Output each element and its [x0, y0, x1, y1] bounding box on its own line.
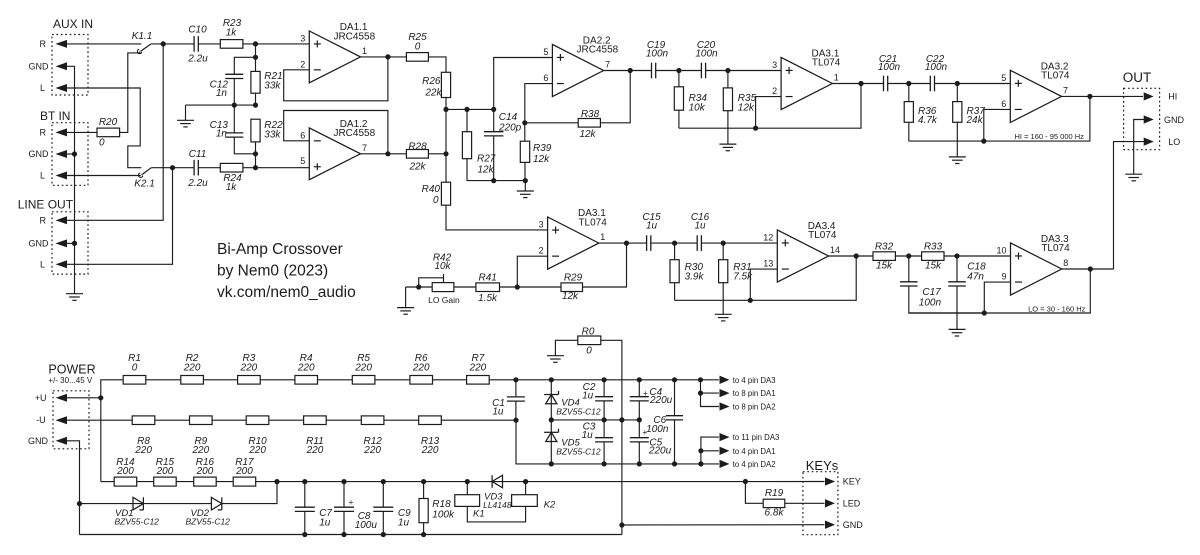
note to 4 pin DA1: [733, 447, 776, 456]
label K1: [473, 509, 485, 520]
label C22: [926, 54, 945, 65]
label C18: [967, 262, 986, 273]
wire R5 to R6: [375, 379, 410, 381]
wire R25 to R26: [428, 57, 446, 72]
resistor R19: [763, 499, 785, 507]
op-amp U DA1.2: [300, 119, 375, 180]
junction C3 bottom: [602, 461, 607, 466]
wire R38 left: [525, 122, 578, 124]
wire R38 to output: [600, 71, 630, 123]
ground (R37): [949, 157, 966, 164]
note LO band: [1028, 305, 1086, 314]
capacitor C17: [900, 282, 918, 286]
arrow KEY: [826, 478, 834, 485]
junction C12 tap: [253, 55, 258, 60]
svg-text:1: 1: [362, 46, 367, 56]
label R6: [415, 353, 428, 364]
svg-text:220u: 220u: [649, 395, 673, 406]
junction C4/C5 mid: [637, 417, 642, 422]
zener diode VD5: [544, 429, 558, 442]
value R27 12k: [478, 164, 495, 175]
junction C1 bottom / -U drop: [513, 418, 518, 423]
svg-text:6: 6: [1001, 99, 1006, 109]
junction R0 mid: [619, 417, 624, 422]
note to 4 pin DA2: [733, 460, 776, 469]
wire LINE OUT L from K2.1 common: [67, 168, 173, 265]
junction C21/C22 node: [906, 81, 911, 86]
value R33 15k: [925, 261, 942, 272]
junction node B (R24 out): [253, 165, 258, 170]
svg-text:L: L: [40, 83, 45, 93]
wire DA1.1 output: [361, 56, 407, 58]
wire C5 bottom: [638, 442, 640, 464]
svg-text:to 8 pin DA1: to 8 pin DA1: [733, 389, 776, 398]
resistor R40: [441, 182, 450, 205]
label R7: [472, 353, 485, 364]
resistor R37: [953, 102, 962, 123]
label R36: [918, 106, 937, 117]
wire R42 to R41: [454, 286, 476, 288]
label R3: [243, 353, 256, 364]
junction DA1.1 out: [385, 54, 390, 59]
capacitor C19: [652, 63, 656, 79]
svg-text:9: 9: [1001, 271, 1006, 281]
resistor R9: [190, 416, 213, 425]
label VD2: [191, 508, 210, 519]
svg-text:LED: LED: [843, 499, 861, 509]
wire R2 to R3: [203, 379, 237, 381]
junction C8 bottom: [341, 532, 346, 537]
wire C2 column: [603, 380, 605, 397]
pin label R (BT): [40, 127, 47, 137]
resistor R20: [97, 128, 120, 137]
junction C14 bottom: [491, 178, 496, 183]
wire R0 right / GND column: [601, 340, 622, 534]
capacitor C7: [295, 507, 315, 511]
svg-text:1.5k: 1.5k: [478, 293, 498, 304]
junction GND column / keys gnd: [619, 522, 624, 527]
polarity + (C4): [643, 388, 648, 398]
svg-text:HI = 160 - 95 000 Hz: HI = 160 - 95 000 Hz: [1015, 132, 1085, 141]
svg-text:12: 12: [763, 232, 773, 242]
resistor R32: [873, 252, 895, 261]
svg-text:BZV55-C12: BZV55-C12: [115, 517, 160, 527]
note HI band: [1015, 132, 1085, 141]
svg-text:200: 200: [116, 466, 134, 477]
svg-text:22k: 22k: [408, 162, 426, 173]
svg-text:47n: 47n: [967, 272, 984, 283]
junction -U arrows tap: [698, 461, 703, 466]
svg-text:200: 200: [196, 466, 214, 477]
wire C3 bottom: [603, 442, 605, 464]
wire arrow DA1: [701, 392, 719, 394]
svg-text:-U: -U: [36, 415, 46, 425]
arrow KEYs GND: [826, 521, 834, 528]
resistor R39: [520, 141, 529, 162]
arrow LINE OUT GND: [57, 240, 67, 247]
wire C1 top stub: [515, 380, 517, 397]
wire R24 to pin5 DA1.2: [243, 167, 309, 169]
svg-text:220u: 220u: [648, 446, 672, 457]
value C11 2.2u: [187, 178, 208, 189]
arrow BT L: [57, 172, 67, 179]
pin label GND (POWER): [28, 436, 49, 446]
wire R14 to R15: [137, 481, 154, 483]
note LO Gain: [428, 295, 460, 305]
wire BT GND: [67, 153, 75, 155]
wire to pin5 DA2.2: [494, 58, 553, 110]
resistor R41: [476, 283, 500, 292]
value R18 100k: [432, 509, 455, 520]
label R9: [194, 436, 207, 447]
svg-text:K1: K1: [473, 509, 485, 520]
svg-text:7: 7: [362, 143, 367, 153]
svg-text:10k: 10k: [434, 261, 451, 272]
value R7 220: [469, 362, 487, 373]
arrow AUX L: [57, 85, 67, 92]
value VD4 BZV55-C12: [556, 407, 601, 417]
wire R23 to pin3 DA1.1: [243, 43, 309, 45]
capacitor C11: [194, 160, 198, 176]
wire K2.1 common: [151, 167, 194, 169]
svg-text:220: 220: [134, 445, 152, 456]
value R9 220: [192, 445, 210, 456]
pin label L (BT): [40, 171, 45, 181]
svg-text:3: 3: [539, 219, 544, 229]
pin label GND (KEYs): [843, 520, 864, 530]
wire DA3.3 feedback: [984, 282, 1010, 313]
junction C13 top: [232, 103, 237, 108]
svg-text:5: 5: [543, 47, 548, 57]
svg-text:100n: 100n: [646, 49, 669, 60]
label R1: [128, 353, 141, 364]
svg-text:14: 14: [830, 245, 840, 255]
arrow LINE OUT L: [57, 261, 67, 268]
svg-text:BT IN: BT IN: [40, 109, 70, 123]
wire R10 to R11: [269, 419, 304, 421]
svg-text:+U: +U: [35, 393, 47, 403]
pin label R (LINE OUT): [40, 215, 47, 225]
svg-text:33k: 33k: [264, 81, 281, 92]
svg-text:5: 5: [1001, 73, 1006, 83]
value R3 220: [240, 362, 258, 373]
wire relay rail: [256, 481, 503, 483]
svg-text:15k: 15k: [925, 261, 942, 272]
svg-text:GND: GND: [843, 520, 864, 530]
arrow OUT GND: [1144, 116, 1152, 123]
value R10 220: [248, 445, 266, 456]
title line 2: [217, 263, 328, 280]
svg-text:2: 2: [539, 246, 544, 256]
pin label GND (BT): [29, 149, 50, 159]
svg-text:2: 2: [300, 59, 305, 69]
polarity + (C5): [642, 427, 647, 437]
value R0 0: [586, 346, 592, 357]
value C13 1n: [216, 129, 228, 140]
svg-text:to 4 pin DA1: to 4 pin DA1: [733, 447, 776, 456]
junction VD5 bottom: [549, 461, 554, 466]
wire C13 top: [233, 105, 235, 133]
arrow to 4 pin DA3: [720, 376, 728, 383]
relay contact K1.1: [137, 44, 151, 54]
arrow LINE OUT R: [57, 217, 67, 224]
junction R33/C18 node: [954, 253, 959, 258]
svg-text:6: 6: [300, 130, 305, 140]
wire DA1.1 feedback: [284, 57, 388, 101]
resistor R38: [578, 119, 600, 128]
capacitor C4 (electrolytic): [630, 397, 649, 401]
wire R6 to R7: [433, 379, 467, 381]
junction pin6 feedback: [981, 139, 986, 144]
svg-text:220: 220: [183, 362, 201, 373]
svg-text:0: 0: [586, 346, 592, 357]
svg-text:0: 0: [132, 362, 138, 373]
wire K2 top stub: [525, 482, 527, 495]
wire R14 row lead-in: [101, 481, 114, 483]
pin label -U: [36, 415, 46, 425]
label C2: [583, 382, 596, 393]
note to 8 pin DA1: [733, 389, 776, 398]
connector KEYs: [803, 472, 838, 535]
arrow to 4 pin DA1: [720, 447, 728, 454]
op-amp U DA3.4: [763, 221, 840, 282]
wire C8 column: [343, 482, 345, 508]
junction R22 top: [253, 103, 258, 108]
pin label R (AUX): [40, 39, 47, 49]
value C9 1u: [398, 518, 410, 529]
connector OUT: [1124, 88, 1160, 149]
label C19: [647, 40, 666, 51]
wire R41 to R29: [500, 286, 562, 288]
wire C11 to R24: [198, 167, 220, 169]
junction DA3.1 out: [858, 81, 863, 86]
label R5: [357, 353, 370, 364]
relay coil K2: [512, 495, 538, 507]
svg-text:6.8k: 6.8k: [765, 508, 785, 519]
value C3 1u: [582, 430, 594, 441]
capacitor C1: [507, 397, 525, 401]
label C4: [649, 387, 662, 398]
svg-text:C10: C10: [188, 24, 207, 35]
pin label GND (AUX): [29, 61, 50, 71]
ground (input bus): [66, 294, 83, 301]
wire C22 to pin5 DA3.2: [935, 83, 1011, 85]
connector title LINE OUT: [18, 198, 74, 212]
wire GND to VD1: [80, 503, 144, 505]
value C8 100u: [355, 520, 378, 531]
capacitor C5 (electrolytic): [630, 438, 649, 442]
wire R40 to LO filter: [446, 205, 548, 230]
op-amp U DA1.1: [300, 22, 375, 83]
value VD1 BZV55-C12: [115, 517, 160, 527]
svg-text:200: 200: [235, 466, 253, 477]
ground (R31): [715, 314, 732, 321]
value R42 10k: [434, 261, 451, 272]
wire R31 top: [722, 243, 724, 260]
wire OUT LO: [1114, 142, 1145, 269]
wire summing to HPF: [446, 108, 494, 110]
wire gnd to R42: [406, 286, 433, 288]
svg-text:BZV55-C12: BZV55-C12: [556, 407, 601, 417]
wire POWER GND down: [67, 441, 80, 535]
wire AUX R: [67, 43, 142, 45]
wire C6 column top: [674, 380, 676, 416]
svg-text:by Nem0 (2023): by Nem0 (2023): [217, 263, 328, 280]
label VD3: [484, 491, 503, 502]
wire DA3.1 output: [832, 83, 883, 85]
wire R21 to mid ground: [255, 93, 257, 105]
wire DA3.1 feedback: [756, 97, 782, 129]
junction C7 bottom: [302, 532, 307, 537]
svg-text:KEYs: KEYs: [806, 458, 839, 473]
wire DA3.4 feedback: [750, 269, 777, 300]
value VD2 BZV55-C12: [186, 517, 231, 527]
value C19 100n: [646, 49, 669, 60]
value C2 1u: [582, 390, 594, 401]
svg-text:R26: R26: [422, 76, 441, 87]
wire R27 top stub: [466, 109, 468, 131]
svg-text:12k: 12k: [478, 164, 495, 175]
value R29 12k: [562, 291, 579, 302]
value R36 4.7k: [918, 115, 938, 126]
op-amp U DA3.1 HI: [772, 48, 841, 109]
wire -U arrows riser: [701, 437, 719, 464]
wire OUT GND: [1134, 120, 1145, 175]
label R23: [223, 18, 242, 29]
arrow AUX GND: [57, 63, 67, 70]
wire R28 out: [428, 153, 446, 155]
wire DA3.4 output: [829, 255, 874, 257]
svg-text:AUX IN: AUX IN: [53, 17, 93, 31]
wire gnd to KEYs: [622, 524, 825, 526]
label C12: [210, 80, 229, 91]
svg-text:2.2u: 2.2u: [187, 54, 208, 65]
svg-text:220p: 220p: [498, 123, 522, 134]
label C1: [492, 398, 505, 409]
label R13: [421, 436, 440, 447]
junction R27 top: [464, 107, 469, 112]
svg-text:220: 220: [297, 362, 315, 373]
arrow to 8 pin DA1: [720, 390, 728, 397]
value R26 22k: [424, 87, 442, 98]
value R23 1k: [226, 28, 238, 39]
connector title OUT: [1123, 70, 1152, 85]
wire C9 column lower: [382, 511, 384, 534]
value R13 220: [421, 445, 439, 456]
junction R38/R39 node: [522, 120, 527, 125]
diode VD3: [492, 475, 502, 488]
junction R42 left/wiper: [416, 284, 421, 289]
wire +U arrows drop: [701, 380, 719, 407]
svg-text:24k: 24k: [966, 115, 984, 126]
wire mid ground rail: [186, 104, 256, 106]
capacitor C8 (electrolytic): [334, 507, 354, 511]
label VD1: [115, 508, 133, 519]
junction VD2 riser: [274, 479, 279, 484]
resistor R12: [361, 416, 384, 425]
capacitor C14: [484, 132, 504, 136]
wire feedback rail (LPF1): [675, 256, 857, 300]
wire pin2 DA3.1LO: [517, 256, 547, 287]
svg-text:6: 6: [543, 73, 548, 83]
svg-text:100u: 100u: [355, 520, 378, 531]
resistor R30: [670, 260, 679, 283]
connector title POWER: [48, 363, 95, 377]
value R14 200: [116, 466, 134, 477]
wire DA3.1LO output: [599, 242, 647, 244]
wire R13 to -U node: [441, 419, 516, 421]
wire R34 top: [678, 71, 680, 87]
value R11 220: [306, 445, 324, 456]
wire R36 top: [908, 84, 910, 102]
pin label +U: [35, 393, 47, 403]
value R34 10k: [689, 102, 706, 113]
svg-text:C11: C11: [189, 149, 207, 160]
arrow GND (POWER): [57, 438, 67, 445]
junction pin13 feedback: [748, 298, 753, 303]
value C4 220u: [649, 395, 673, 406]
ground (R42): [397, 308, 414, 315]
label C13: [210, 120, 229, 131]
value R19 6.8k: [765, 508, 785, 519]
label R39: [533, 143, 552, 154]
svg-text:12k: 12k: [738, 102, 755, 113]
svg-text:0: 0: [433, 195, 439, 206]
resistor R7: [467, 376, 490, 385]
wire R30 bottom: [674, 283, 676, 301]
svg-text:K2.1: K2.1: [134, 178, 155, 189]
svg-text:LO: LO: [1168, 137, 1180, 147]
svg-text:+: +: [349, 497, 354, 507]
label R15: [156, 457, 175, 468]
wire R18 top stub: [423, 482, 425, 499]
ground (C12/C13 node): [177, 120, 194, 127]
relay coil K1: [455, 495, 480, 507]
wire C4 column: [638, 380, 640, 397]
value R28 22k: [408, 162, 426, 173]
svg-text:220: 220: [363, 445, 381, 456]
label R19: [765, 488, 784, 499]
arrow +U: [57, 395, 67, 402]
value C6 100n: [646, 424, 669, 435]
wire R27 bottom: [467, 159, 525, 181]
value C14 220p: [498, 123, 522, 134]
junction pin2 feedback: [753, 126, 758, 131]
label R29: [564, 273, 583, 284]
junction arrow DA1 tap: [698, 391, 703, 396]
svg-text:LO = 30 - 160 Hz: LO = 30 - 160 Hz: [1028, 305, 1086, 314]
value C5 220u: [648, 446, 672, 457]
junction LO out: [1088, 266, 1093, 271]
connector title AUX IN: [53, 17, 93, 31]
label C7: [319, 508, 332, 519]
svg-text:200: 200: [156, 466, 174, 477]
wire feedback rail (HI out): [909, 96, 1090, 141]
label C16: [691, 212, 710, 223]
value R5 220: [354, 362, 372, 373]
value C22 100n: [925, 62, 948, 73]
svg-text:0: 0: [99, 137, 105, 148]
svg-text:1u: 1u: [398, 518, 410, 529]
wire C16 to pin12 DA3.4: [701, 242, 777, 244]
label C14: [499, 112, 518, 123]
svg-text:GND: GND: [1164, 115, 1185, 125]
label R14: [116, 457, 135, 468]
junction R18 bottom: [421, 532, 426, 537]
arrow -U: [57, 417, 67, 424]
svg-text:12k: 12k: [562, 291, 579, 302]
wire +U to rails: [67, 397, 101, 399]
